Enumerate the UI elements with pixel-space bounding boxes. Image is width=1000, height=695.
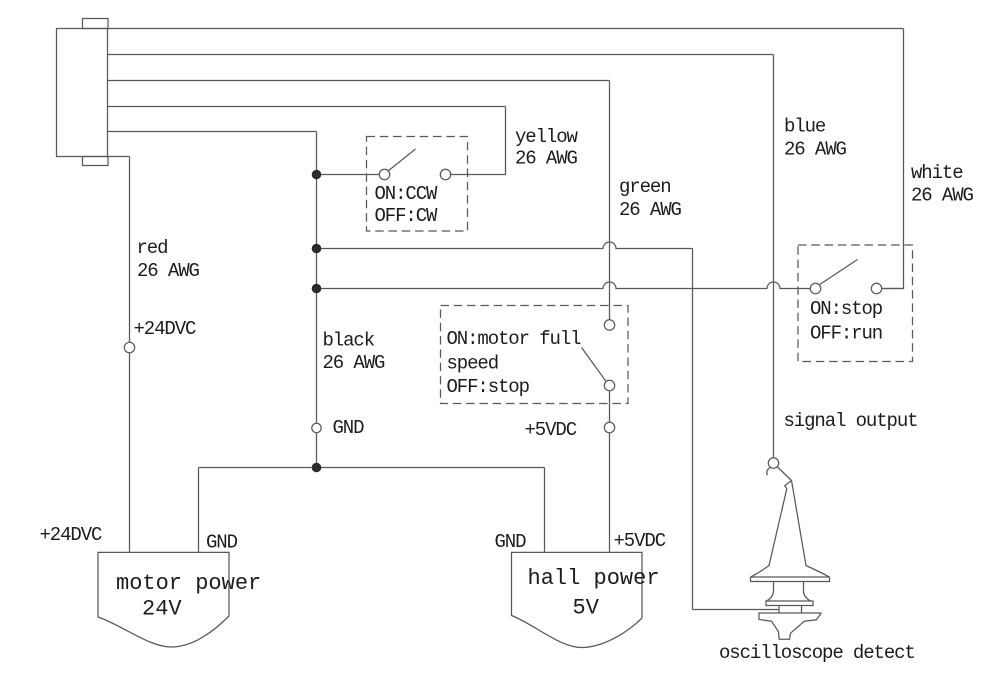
switch S1 dashed box	[367, 137, 468, 232]
svg-text:oscilloscope detect: oscilloscope detect	[719, 642, 915, 664]
svg-text:OFF:stop: OFF:stop	[447, 376, 530, 398]
svg-text:26 AWG: 26 AWG	[911, 185, 974, 207]
connector J1 top tab	[83, 19, 109, 29]
switch S3 left contact	[810, 283, 820, 293]
switch S3 lever	[819, 260, 857, 285]
junction black-GND bus	[312, 463, 322, 473]
wire green vertical upper	[609, 81, 611, 321]
terminal +24DVC circle	[124, 342, 134, 352]
svg-text:yellow: yellow	[515, 126, 579, 148]
connector J1 body	[57, 29, 108, 157]
wire blue horizontal	[108, 54, 774, 56]
wire white vertical	[882, 29, 904, 289]
oscilloscope probe hook circle	[768, 458, 778, 468]
switch S2 dashed box	[441, 306, 629, 404]
wire bus A horizontal with hop over green	[317, 242, 693, 249]
switch S2 top contact	[604, 320, 614, 330]
svg-text:hall power: hall power	[528, 566, 660, 591]
svg-text:red: red	[137, 237, 168, 259]
oscilloscope probe hook claw	[767, 468, 770, 476]
svg-text:ON:stop: ON:stop	[810, 298, 883, 320]
switch S2 bottom contact	[604, 380, 614, 390]
wire yellow horizontal	[108, 106, 506, 108]
oscilloscope probe collar	[767, 582, 811, 602]
wire red vertical lower into motor power	[129, 353, 131, 553]
wire GND branch to motor power	[198, 468, 200, 553]
svg-text:26 AWG: 26 AWG	[137, 260, 200, 282]
svg-text:5V: 5V	[573, 596, 600, 621]
svg-text:signal output: signal output	[784, 410, 918, 432]
wire red vertical upper	[129, 157, 131, 343]
switch S1 right contact	[440, 169, 450, 179]
switch S1 lever	[388, 149, 415, 171]
svg-text:26 AWG: 26 AWG	[619, 199, 682, 221]
svg-text:motor power: motor power	[116, 571, 261, 596]
svg-text:OFF:CW: OFF:CW	[375, 205, 439, 227]
wire S3 right contact to white	[882, 288, 904, 290]
svg-text:ON:motor full: ON:motor full	[447, 328, 582, 350]
terminal GND circle on black wire	[312, 423, 321, 432]
wire green below switch to +5VDC terminal	[609, 391, 611, 423]
wire GND bus horizontal	[199, 467, 545, 469]
svg-text:green: green	[619, 176, 671, 198]
wire bus B horizontal with hops over green and blue	[317, 282, 811, 289]
junction black-busA	[312, 244, 322, 254]
svg-text:+24DVC: +24DVC	[134, 318, 197, 340]
switch S3 right contact	[871, 283, 881, 293]
wire blue vertical	[773, 55, 775, 459]
svg-text:white: white	[911, 162, 963, 184]
junction black-S1	[312, 170, 322, 180]
oscilloscope probe hook lever	[777, 467, 792, 481]
connector J1 bottom tab	[83, 157, 109, 166]
wire white horizontal	[108, 28, 904, 30]
terminal +5VDC circle on green wire	[604, 422, 614, 432]
oscilloscope probe barrel bar	[766, 601, 813, 606]
svg-text:GND: GND	[333, 417, 365, 439]
wire black vertical upper	[316, 132, 318, 424]
svg-text:26 AWG: 26 AWG	[323, 352, 386, 374]
svg-text:blue: blue	[784, 116, 826, 138]
oscilloscope probe neck	[779, 606, 802, 614]
svg-text:+24DVC: +24DVC	[40, 524, 103, 546]
switch S2 lever	[582, 348, 607, 382]
wire green horizontal	[108, 80, 610, 82]
wire green into hall power box	[609, 433, 611, 553]
oscilloscope probe tip and cone with skirt plate	[751, 481, 830, 582]
svg-text:ON:CCW: ON:CCW	[375, 183, 439, 205]
svg-text:GND: GND	[206, 532, 238, 554]
hall power source box	[512, 552, 643, 647]
svg-text:26 AWG: 26 AWG	[784, 139, 847, 161]
switch S1 left contact	[379, 169, 389, 179]
junction black-busB	[312, 284, 322, 294]
svg-text:OFF:run: OFF:run	[810, 323, 882, 345]
svg-text:black: black	[323, 330, 375, 352]
wire black vertical lower	[316, 433, 318, 468]
wire black horizontal	[108, 131, 317, 133]
wire red along connector bottom	[108, 156, 130, 158]
wire bus A vertical down to oscilloscope	[692, 249, 694, 610]
svg-text:26 AWG: 26 AWG	[515, 148, 578, 170]
wire yellow vertical and into switch S1	[451, 107, 506, 175]
oscilloscope probe crown base	[759, 613, 821, 639]
svg-text:GND: GND	[495, 531, 527, 553]
wire S1 to black bus	[317, 174, 380, 176]
switch S3 dashed box	[798, 245, 913, 362]
svg-text:+5VDC: +5VDC	[614, 530, 666, 552]
motor power source box	[98, 552, 229, 647]
wire GND branch to hall power	[544, 468, 546, 553]
wire bus A to probe ground	[693, 609, 780, 611]
svg-text:24V: 24V	[142, 597, 182, 622]
svg-text:+5VDC: +5VDC	[525, 419, 577, 441]
svg-text:speed: speed	[447, 353, 499, 375]
